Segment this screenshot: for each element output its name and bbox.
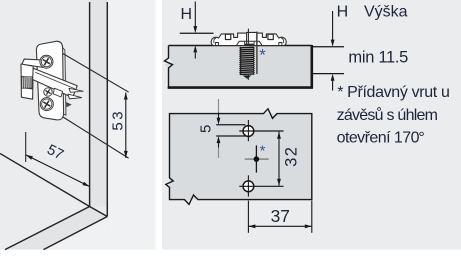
arm central band [33,68,78,97]
svg-text:* Přídavný vrut u: * Přídavný vrut u [337,84,449,101]
right prongs [69,88,83,92]
svg-text:min 11.5: min 11.5 [348,48,408,66]
board bottom edge receding left (back) [44,217,108,250]
32 dimension [277,132,301,186]
board bottom edge [168,86,313,89]
bottom hole [239,175,283,196]
additional screw line [256,32,258,74]
svg-text:*: * [259,46,266,65]
board (top view) [166,109,312,205]
svg-text:*: * [260,143,266,160]
left square hole [225,34,230,39]
svg-text:závěsů s úhlem: závěsů s úhlem [337,106,438,124]
board left edge with break [165,46,173,88]
inter-view line (gray) [218,99,220,113]
plate side thickness edge [63,48,66,116]
plate profile (side section) [211,32,286,45]
left curl inner [214,38,217,43]
5 dim arrows [217,113,221,159]
arm top flange [22,59,47,67]
right foot notch [279,43,282,46]
plate body [36,41,63,120]
mounting plate (left panel, perspective) [21,41,83,120]
53 bottom extension line [63,117,129,158]
right gray panel [162,0,461,250]
svg-text:H: H [337,4,349,21]
svg-text:32: 32 [283,146,301,167]
arm left stack [21,64,33,99]
svg-text:53: 53 [110,109,127,131]
dimension 57 line [26,155,90,187]
board bottom edge receding left (front) [5,207,90,250]
screw shank left edge [246,33,248,46]
svg-text:37: 37 [271,206,290,226]
board vertical edge A [89,2,91,207]
knurled cylinder [22,77,33,88]
bottom screw [40,98,53,111]
board bottom thickness band [5,207,107,250]
area right of board edge (lighter) [108,0,153,250]
57 arrow left [26,155,33,160]
board vertical edge B [106,2,108,217]
screw head sides [244,41,246,45]
37 dimension [248,201,311,233]
screw center line [247,29,249,44]
dowel tip below [66,102,72,107]
svg-text:°: ° [418,129,424,146]
board (side section) [165,45,313,88]
5 dim extension lines [216,124,245,126]
top hole [239,120,283,141]
screw head dark bottom [245,44,254,46]
svg-text:otevření 170: otevření 170 [337,129,420,146]
screw shank right edge [256,33,258,46]
small block right of adjuster [53,88,62,97]
dimension 53 line [125,93,127,158]
right square hole [268,34,273,39]
H dimension (left) [180,2,214,59]
svg-text:Výška: Výška [364,4,408,21]
53 top extension line [46,44,129,93]
screw thread into board [240,46,255,79]
57 left extension line [25,132,27,162]
centre mound [237,41,263,45]
area beyond bottom edge (lighter) [44,217,108,250]
53 arrow up [124,93,128,100]
cam adjuster screw [44,88,52,96]
screw tip [243,75,252,79]
left foot notch [215,43,218,46]
57 arrow right [82,182,89,187]
right curl inner [281,38,284,43]
min 11.5 dimension (right) [313,11,344,91]
board bottom-left face edge [0,154,90,207]
svg-text:H: H [181,6,193,23]
board front strip shading [90,0,108,207]
top screw [40,55,53,68]
53 arrow down [124,151,128,158]
board bottom corner edge [90,207,108,217]
middle cross (additional screw position) [245,145,269,172]
svg-text:5: 5 [197,125,214,133]
board top edge [169,45,312,47]
board right edge [310,45,313,88]
